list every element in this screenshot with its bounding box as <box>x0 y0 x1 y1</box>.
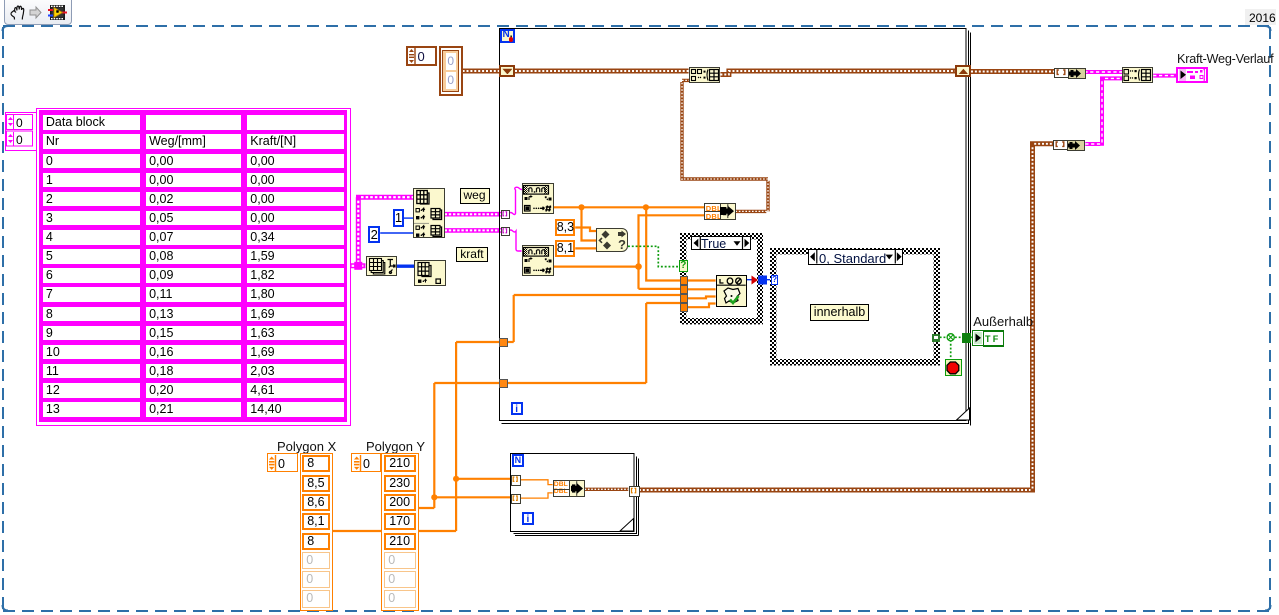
svg-text:0: 0 <box>363 457 370 471</box>
svg-text:0: 0 <box>16 116 23 130</box>
svg-text:0: 0 <box>418 49 425 64</box>
svg-text:0: 0 <box>16 133 23 147</box>
svg-text:0: 0 <box>278 457 285 471</box>
svg-text:?: ? <box>618 237 626 251</box>
